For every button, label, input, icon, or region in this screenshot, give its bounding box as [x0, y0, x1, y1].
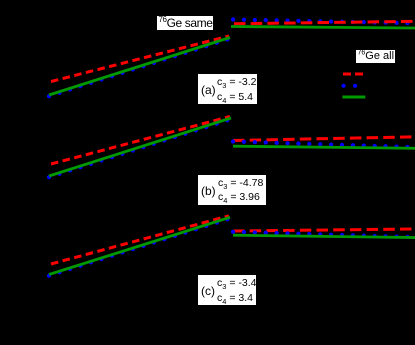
label box: 76Ge all	[355, 49, 396, 65]
panel b rising: red dashed curve	[51, 117, 230, 165]
panel c flat: red dashed curve	[233, 229, 415, 231]
panel a flat: blue dotted curve	[233, 20, 415, 24]
panel a rising: blue dotted curve	[49, 39, 230, 96]
label box: 76Ge same	[156, 15, 215, 31]
label box (b) c3 = -4.78 c4 = 3.96	[197, 174, 267, 206]
panel c flat: blue dotted curve	[233, 232, 415, 237]
panel c rising: red dashed curve	[51, 216, 229, 264]
panel c rising: green solid curve	[49, 217, 230, 274]
panel b rising: green solid curve	[49, 118, 231, 176]
panel b flat: red dashed curve	[233, 137, 415, 141]
panel b flat: green solid curve	[233, 146, 415, 148]
panel b rising: blue dotted curve	[49, 119, 231, 177]
legend sample: blue dotted	[344, 84, 357, 88]
panel a rising: green solid curve	[49, 38, 230, 96]
legend sample: red dashed	[343, 73, 363, 76]
panel a rising: red dashed curve	[51, 36, 229, 82]
label box (a) c3 = -3.2 c4 = 5.4	[197, 73, 258, 105]
panel c rising: blue dotted curve	[49, 219, 230, 276]
panel a flat: red dashed curve	[234, 21, 415, 24]
panel c flat: green solid curve	[233, 235, 415, 237]
panel a flat: green solid curve	[231, 27, 415, 29]
panel b flat: blue dotted curve	[233, 142, 415, 148]
label box (c) c3 = -3.4 c4 = 3.4	[197, 274, 257, 306]
legend sample: green solid	[342, 96, 365, 99]
